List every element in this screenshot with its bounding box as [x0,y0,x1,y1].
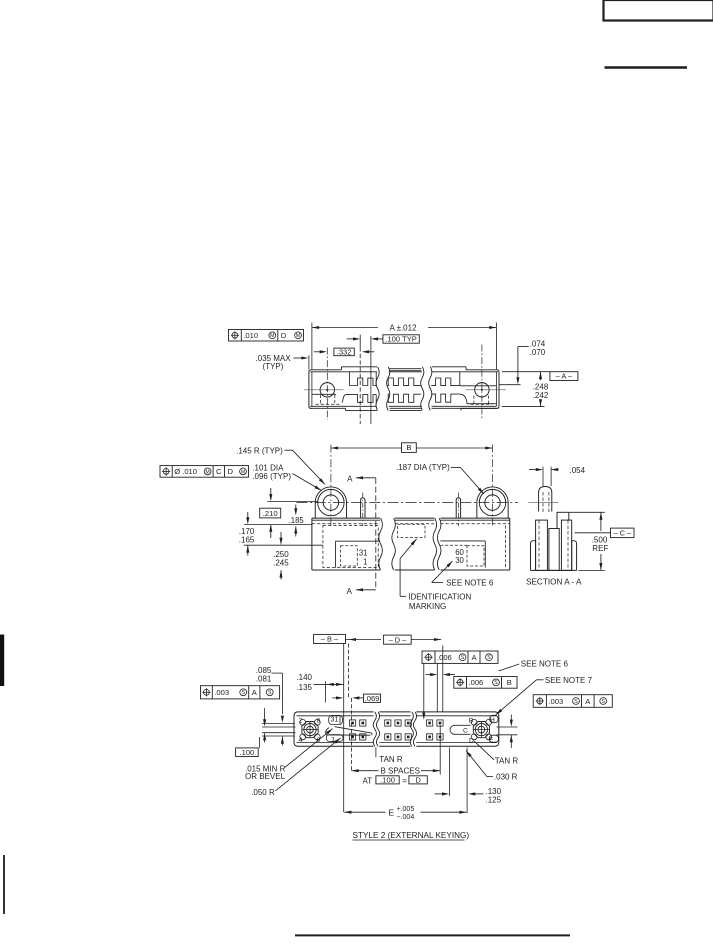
front view body: right segment [437,518,441,570]
svg-text:.100 TYP: .100 TYP [385,335,417,344]
bottom view: small gap dim arrows [426,674,431,676]
svg-text:B: B [507,678,512,687]
front view: left dimension group [267,501,318,503]
front view: right mounting ear [477,487,508,518]
svg-text:8: 8 [316,717,320,724]
bottom view: FCF ⊕ .003 (S) A (S) left [201,686,280,699]
top view: boxed dim .332 [334,348,354,356]
svg-text:A: A [347,587,353,596]
section A-A: dim .054 [529,469,536,471]
page corner box top-right [604,0,713,21]
svg-text:OR BEVEL: OR BEVEL [245,772,286,781]
top view: datum flag -A- [502,371,550,373]
top view: ext line right lower [502,406,545,408]
svg-text:31: 31 [330,715,338,724]
front view: dim B (boxed) [331,447,402,449]
svg-text:.003: .003 [548,697,563,706]
front view: ext line y=524.6 [244,524,312,526]
bottom view: leader from FCF down [423,663,425,713]
bottom view: boxed dim .069 [364,694,381,702]
top view body: hole right [475,383,489,397]
bottom center rule [295,934,570,936]
svg-text:S: S [601,699,605,705]
front view: ext line y=545.2 [244,544,323,546]
svg-text:B SPACES: B SPACES [381,767,420,776]
bottom view: inner pair arrows [264,708,266,720]
svg-text:.003: .003 [214,688,229,697]
svg-text:.069: .069 [365,694,380,703]
svg-text:Ø .010: Ø .010 [174,467,197,476]
svg-text:D: D [469,737,474,744]
svg-text:.100: .100 [380,776,395,785]
svg-text:.245: .245 [273,559,289,568]
svg-text:S: S [494,680,498,686]
bottom view: right keying clover [473,722,489,738]
bottom view: FCF ⊕ .006 (S) A (S) [422,651,498,663]
svg-text:.242: .242 [533,391,549,400]
front view: horizontal centerline [297,502,519,504]
svg-text:D: D [415,776,421,785]
top view: extension line right (A) [495,323,497,370]
top view: contact centerline ext 1 [359,335,361,348]
svg-text:M: M [296,333,300,339]
svg-text:A: A [347,474,353,483]
top view body: right inner top line [432,371,499,373]
bottom view: left keyway groove [335,727,372,733]
svg-text:2: 2 [299,717,303,724]
svg-text:30: 30 [455,556,464,565]
top view body: right seg bottom lines [432,405,497,407]
svg-text:SEE NOTE 6: SEE NOTE 6 [446,579,494,588]
top view: hole left vertical centerline [326,348,328,421]
bottom view: right clover gap dim arrows [510,715,512,721]
svg-text:M: M [270,333,274,339]
svg-text:B: B [406,443,411,452]
svg-text:.050 R: .050 R [251,788,275,797]
svg-text:.096 (TYP): .096 (TYP) [252,472,291,481]
svg-text:.006: .006 [469,678,484,687]
top view body: middle segment [387,367,390,411]
top view body: right seg comb row1 [431,378,460,386]
top view: dimension A ±.012 [312,327,378,329]
front view: section line A-A [375,478,377,590]
svg-text:C: C [216,467,222,476]
top view body: left segment outline [309,370,342,409]
bottom view: leaders to keyway (left) [285,729,333,768]
svg-text:−.004: −.004 [397,814,415,821]
svg-text:+.005: +.005 [397,806,415,813]
svg-text:.187 DIA (TYP): .187 DIA (TYP) [396,463,450,472]
section A-A: body profile [531,541,536,571]
top view body: left seg comb row2 [343,395,346,403]
top view body: left hidden key slot (dashed) [316,403,340,405]
bottom view: dim B SPACES AT .100 = D [352,769,359,772]
bottom view: slot around 1 [326,735,343,742]
bottom view: left clover crosshair extensions [262,722,295,724]
top view body: left seg comb row1 [348,372,350,386]
svg-text:.006: .006 [437,653,452,662]
svg-text:TAN R: TAN R [379,755,403,764]
top view body: left inner top line [310,371,377,373]
top view: dim .248 / .242 [539,372,542,379]
top view body: right hidden key slot (dashed) [471,403,492,405]
svg-text:1: 1 [363,557,367,566]
top view: ext line right upper [499,384,520,386]
svg-text:SEE NOTE 6: SEE NOTE 6 [521,659,569,668]
top view body: left seg mid line [312,393,337,395]
svg-text:TAN R: TAN R [495,756,519,765]
svg-text:REF: REF [592,544,608,553]
section A-A: datum flag -C- [575,532,611,534]
top view body: left inner end wall [311,372,313,407]
top view body: right seg comb row2 [431,394,460,402]
svg-text:IDENTIFICATION: IDENTIFICATION [408,593,471,602]
top view body: right inner end wall [495,372,497,407]
svg-text:.125: .125 [486,796,502,805]
bottom view: boxed dim .100 left [236,748,259,757]
bottom view: datum box -B- [314,634,346,643]
svg-text:.140: .140 [296,673,312,682]
section A-A: keying pin [539,487,552,512]
svg-text:SEE NOTE 7: SEE NOTE 7 [545,676,593,685]
section A-A: hidden lines in towers [538,520,540,570]
front view: left mounting ear [315,487,346,518]
svg-text:.100: .100 [240,748,255,757]
bottom view: note SEE NOTE 7 [537,679,544,681]
svg-text:31: 31 [359,549,368,558]
front view body: middle segment [392,518,396,570]
short rule top-right [605,66,688,69]
bottom view: ext line B spaces left [351,698,353,771]
top view: feature control frame ⊕ .010 (M) D (M) [229,330,304,342]
bottom view: right keyway groove [455,724,471,726]
svg-text:S: S [574,699,578,705]
svg-text:A ±.012: A ±.012 [389,323,417,332]
front view: keying pin left [361,498,365,518]
bottom view: right end slot H [490,715,498,722]
svg-text:M: M [241,469,245,475]
svg-text:D: D [228,467,234,476]
svg-text:– C –: – C – [613,528,632,537]
svg-text:– A –: – A – [556,372,573,381]
svg-text:S: S [241,690,245,696]
bottom view: left keying clover [302,722,318,738]
svg-text:– D –: – D – [389,635,408,644]
svg-text:– B –: – B – [321,635,339,644]
svg-text:B: B [469,717,474,724]
top view: hole right vertical centerline [481,345,483,421]
bottom view: dim .130 .125 [435,793,443,795]
svg-text:S: S [487,655,491,661]
front view: note IDENTIFICATION MARKING [400,539,417,559]
svg-text:.030 R: .030 R [494,773,518,782]
section A-A: dim .500 REF [569,511,605,513]
svg-text:C: C [463,728,468,735]
top view body: right seg mid line [460,385,497,387]
bottom view: note TAN R left [375,747,377,757]
svg-text:.054: .054 [570,466,586,475]
svg-text:.010: .010 [243,331,258,340]
front view body: left segment [312,517,380,519]
svg-text:MARKING: MARKING [409,602,446,611]
svg-text:S: S [461,655,465,661]
front view: ear vertical centerlines [330,445,332,526]
section A-A: pin horizontal centerline [528,501,558,503]
svg-text:E: E [389,807,395,817]
svg-text:.185: .185 [289,516,305,525]
svg-text:AT: AT [363,777,373,786]
svg-text:(TYP): (TYP) [263,362,284,371]
top view: hole right horizontal centerline [466,389,506,391]
svg-text:6: 6 [316,737,320,744]
svg-text:SECTION A - A: SECTION A - A [526,577,582,586]
bottom view: datum box -D- and dim line [346,639,382,641]
svg-text:.081: .081 [256,675,272,684]
top view body: right segment outline [429,367,432,411]
svg-text:.165: .165 [239,535,255,544]
svg-text:STYLE 2 (EXTERNAL KEYING): STYLE 2 (EXTERNAL KEYING) [353,831,470,840]
front view: note SEE NOTE 6 [432,561,453,582]
bottom view: right end slot F [489,735,498,742]
svg-text:S: S [268,690,272,696]
svg-text:4: 4 [299,737,303,744]
svg-text:=: = [402,776,407,785]
bottom view: body outline [294,712,374,746]
front view: keying pin right [456,498,460,518]
top view: contact centerline ext 2 [370,336,372,424]
bottom view: ext line B spaces right [439,725,441,775]
bottom view: long ext line left (E) [343,712,345,812]
bottom view: note SEE NOTE 6 [499,664,520,671]
top view body: left seg break line [376,367,379,411]
bottom view: FCF ⊕ .006 (S) B [454,677,517,689]
left margin change bar lower [3,855,5,914]
svg-text:1: 1 [331,735,335,744]
top view body: left seg bottom lines [310,405,376,407]
bottom view: slot around 31 [329,715,343,724]
svg-text:.145 R (TYP): .145 R (TYP) [236,447,283,456]
bottom view: right clover crosshair extensions [497,726,518,728]
svg-text:.210: .210 [263,509,278,518]
svg-text:M: M [205,469,209,475]
front view: feature control frame ⊕ ø.010 (M) C D (M) [160,466,249,478]
svg-text:.070: .070 [530,348,546,357]
left margin change bar upper [0,635,4,687]
svg-text:.332: .332 [337,348,352,357]
top view: boxed dim .100 TYP [383,335,419,343]
top view: extension line left (A) [311,323,313,370]
bottom view: ext lines below -B- [343,644,345,713]
bottom view: FCF ⊕ .003 (S) A (S) right [533,695,612,708]
bottom view: wavy breaks [373,712,376,746]
svg-text:.135: .135 [296,683,312,692]
top view body: hole left [320,383,334,397]
bottom view: contact squares [350,720,356,726]
svg-text:D: D [281,331,287,340]
bottom view: dim E +.005 -.004 [344,811,385,813]
top view: hole left horizontal centerline [304,389,344,391]
